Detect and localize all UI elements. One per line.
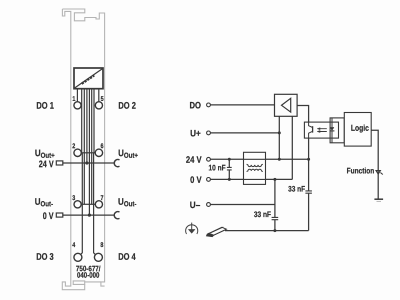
part number text xyxy=(76,266,101,280)
svg-text:6: 6 xyxy=(101,143,105,151)
svg-text:2: 2 xyxy=(72,143,76,151)
junction dot 0V / C3 xyxy=(273,178,276,181)
capacitor C1 10nF leads xyxy=(228,159,230,179)
svg-text:0 V: 0 V xyxy=(43,210,54,221)
right jumper contact arc 24V xyxy=(114,160,119,167)
filter box L1 xyxy=(244,152,266,184)
light arrows xyxy=(317,128,327,133)
filter coil lower (bumps up) xyxy=(247,169,263,171)
driver bottom wire to U+/24V xyxy=(278,116,280,159)
svg-text:UOut-: UOut- xyxy=(118,196,136,208)
wire 0V feed xyxy=(88,89,90,216)
svg-text:U+: U+ xyxy=(190,128,201,139)
row line pins 2-6 xyxy=(81,152,95,154)
pin numbers xyxy=(72,95,104,249)
terminal U+ xyxy=(207,131,211,135)
svg-text:4: 4 xyxy=(72,241,76,249)
LED in optocoupler xyxy=(330,118,335,143)
pin contact circles xyxy=(74,102,103,262)
module bottom inner rectangle xyxy=(73,281,101,285)
earth symbol below function wire xyxy=(374,199,383,201)
svg-text:U–: U– xyxy=(190,199,201,210)
wire U+ xyxy=(210,132,279,134)
pin 4 xyxy=(74,253,82,261)
circuit labels xyxy=(186,100,202,210)
wire pin6 xyxy=(93,89,95,153)
svg-text:Function: Function xyxy=(347,166,375,176)
electronics box U1 (isolation symbol) xyxy=(74,68,103,89)
svg-text:040-000: 040-000 xyxy=(77,272,99,280)
capacitor C3 33nF lead and plates xyxy=(274,179,276,230)
junction dot PE rail / C3 xyxy=(273,229,276,232)
row line pins 3-7 xyxy=(81,203,95,205)
wire pin7 xyxy=(91,89,93,205)
driver bottom wire to 0V xyxy=(291,116,293,179)
pin 8 xyxy=(94,253,102,261)
pin 3 xyxy=(74,201,81,208)
capacitor C1 plates xyxy=(227,167,232,170)
svg-text:DO 4: DO 4 xyxy=(118,251,136,262)
hatched band parallel to diagonal xyxy=(82,75,95,83)
wire 0V from filter xyxy=(266,178,293,180)
svg-text:33 nF: 33 nF xyxy=(254,209,272,219)
left connector square 24V xyxy=(56,161,63,165)
0V field rail through module xyxy=(63,214,114,216)
svg-text:DO 2: DO 2 xyxy=(118,100,136,111)
wire 24V from filter to node xyxy=(266,158,309,160)
pin 6 xyxy=(95,149,102,156)
svg-text:7: 7 xyxy=(100,194,104,202)
wire pin2 xyxy=(81,89,83,153)
svg-text:33 nF: 33 nF xyxy=(288,184,306,194)
svg-text:UOut+: UOut+ xyxy=(118,148,138,160)
junction dot 24V / opto-C2 xyxy=(307,158,310,161)
svg-text:5: 5 xyxy=(101,95,105,103)
svg-text:Logic: Logic xyxy=(351,123,370,133)
wire 24V feed xyxy=(86,89,88,164)
svg-text:1: 1 xyxy=(72,95,76,103)
svg-text:DO 3: DO 3 xyxy=(36,251,54,262)
terminal U- xyxy=(207,203,211,207)
svg-text:10 nF: 10 nF xyxy=(209,163,227,173)
junction dot 24V / driver xyxy=(278,158,281,161)
module labels xyxy=(36,100,136,262)
wire 24V to filter xyxy=(210,158,243,160)
optocoupler emitter wire down through 24V node, cap C2, to PE rail xyxy=(308,138,310,231)
wire pin4 xyxy=(81,153,83,255)
function selector symbol xyxy=(376,171,383,175)
logic box xyxy=(344,113,371,147)
wire pin1 xyxy=(76,89,78,102)
module outline (side contour, light gray) xyxy=(62,9,104,290)
svg-text:24 V: 24 V xyxy=(186,154,202,165)
driver box A1 xyxy=(275,94,298,116)
phototransistor xyxy=(309,122,313,138)
wire 0V to filter xyxy=(210,178,243,180)
wire DO to driver xyxy=(210,104,274,106)
junction dot C1 0V xyxy=(228,178,231,181)
driver output wire to optocoupler xyxy=(297,106,309,123)
svg-text:DO 1: DO 1 xyxy=(36,100,54,111)
left connector square 0V xyxy=(56,213,63,217)
svg-text:UOut-: UOut- xyxy=(35,196,53,208)
pin 2 xyxy=(74,149,81,156)
terminal 0V xyxy=(207,178,211,182)
24V line through filter box xyxy=(244,158,266,160)
terminal DO xyxy=(207,103,211,107)
junction dot C1 24V xyxy=(228,158,231,161)
wire pin8 xyxy=(94,153,96,255)
svg-text:DO: DO xyxy=(189,100,201,111)
logic to function wire xyxy=(371,130,378,199)
svg-text:3: 3 xyxy=(72,194,76,202)
optocoupler box U2 xyxy=(304,122,338,138)
wire pin3 xyxy=(83,89,85,205)
right jumper contact arc 0V xyxy=(114,212,119,219)
driver triangle xyxy=(282,98,291,112)
junction dot 24V rail xyxy=(85,161,88,164)
junction dot U+ / driver xyxy=(278,131,281,134)
svg-text:8: 8 xyxy=(100,241,104,249)
junction dot 0V rail xyxy=(88,214,91,217)
pin 1 xyxy=(74,102,81,109)
diagonal of isolation box xyxy=(75,69,103,88)
0V line through filter box xyxy=(244,178,266,180)
PE earth symbol (circle with arrow) xyxy=(186,223,198,234)
pin 5 xyxy=(95,102,102,109)
filter coil upper (bumps down) xyxy=(247,164,263,166)
pin wires from electronics box xyxy=(77,89,98,255)
pin 7 xyxy=(95,201,102,208)
wire pin5 xyxy=(98,89,100,102)
capacitor C2 33nF plates xyxy=(305,191,312,193)
terminal 24V xyxy=(207,157,211,161)
24V field rail through module xyxy=(56,160,119,219)
wire U- xyxy=(210,204,275,206)
DIN rail contact symbol (flag) xyxy=(207,227,227,237)
svg-text:0 V: 0 V xyxy=(190,174,202,185)
svg-text:UOut+: UOut+ xyxy=(35,148,55,160)
PE bottom rail xyxy=(225,230,309,232)
isolation overlap box xyxy=(330,118,344,143)
